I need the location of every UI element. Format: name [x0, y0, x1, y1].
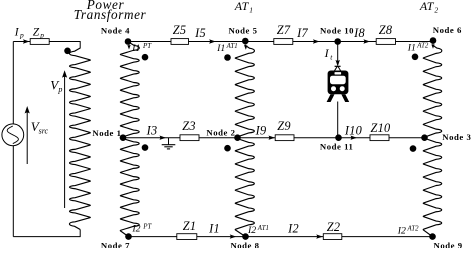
svg-text:I1: I1	[208, 222, 220, 236]
wire bottom bus node7 to node9	[129, 236, 433, 238]
transformer primary winding L1	[69, 48, 90, 230]
resistor Z9	[275, 135, 294, 141]
current arrow I9	[268, 136, 275, 140]
label I2PT	[131, 223, 152, 235]
wire left vertical lower	[12, 146, 14, 237]
resistor Z2	[323, 234, 342, 240]
node 9	[429, 233, 436, 240]
current arrow It	[336, 60, 340, 67]
resistor Zp	[30, 39, 49, 45]
current arrow I2	[316, 234, 323, 238]
svg-text:I9: I9	[255, 124, 267, 138]
svg-text:I1: I1	[131, 43, 140, 54]
current arrow I5	[209, 39, 216, 43]
current arrow I1	[230, 234, 237, 238]
svg-text:AT2: AT2	[416, 43, 429, 50]
svg-text:Node 11: Node 11	[320, 142, 354, 152]
svg-text:Z5: Z5	[173, 23, 187, 37]
svg-text:AT: AT	[234, 0, 250, 13]
polarity dot primary	[64, 48, 71, 55]
label Ip	[14, 27, 24, 40]
svg-text:I3: I3	[146, 124, 158, 138]
svg-text:Transformer: Transformer	[74, 7, 147, 22]
resistor Z8	[376, 39, 395, 45]
svg-text:Z3: Z3	[182, 119, 196, 133]
svg-text:I2: I2	[287, 222, 299, 236]
title AT1	[234, 0, 253, 15]
polarity dot AT2 lower	[410, 145, 417, 152]
wire train feed from node10	[337, 42, 339, 63]
svg-text:I2: I2	[397, 226, 406, 237]
current arrow I8	[363, 39, 370, 43]
voltage source Vsrc	[2, 124, 24, 146]
current arrow I1AT1	[244, 45, 247, 50]
current arrow I3	[159, 136, 166, 140]
svg-text:Node 9: Node 9	[434, 240, 463, 248]
current arrow Ip	[23, 39, 30, 43]
svg-text:Node 6: Node 6	[433, 25, 462, 35]
svg-text:Z2: Z2	[327, 220, 341, 234]
svg-text:1: 1	[249, 6, 253, 15]
node 1	[120, 134, 127, 141]
current arrow I1PT	[127, 44, 130, 50]
resistor Z3	[180, 135, 199, 141]
transformer secondary winding	[120, 43, 139, 237]
label Zp	[33, 27, 45, 40]
polarity dot AT1 lower	[224, 145, 231, 152]
svg-text:I2: I2	[131, 224, 140, 235]
label I2AT2	[397, 226, 419, 237]
resistor Z5	[171, 39, 189, 45]
label Vsrc	[31, 119, 49, 135]
svg-text:AT: AT	[419, 0, 435, 13]
svg-text:Node 3: Node 3	[442, 132, 471, 142]
svg-text:I8: I8	[353, 26, 365, 40]
svg-text:I10: I10	[344, 124, 362, 138]
voltage arrow Vp	[62, 70, 67, 208]
label I1AT1	[216, 43, 238, 54]
current arrow I7	[313, 39, 320, 43]
title AT2	[419, 0, 439, 15]
wire bottom-left to primary	[13, 230, 80, 237]
svg-text:Z8: Z8	[379, 23, 393, 37]
train load	[327, 66, 350, 102]
polarity dot AT1 upper	[224, 54, 231, 61]
wire train to node11	[337, 102, 339, 138]
svg-text:Z10: Z10	[371, 121, 391, 135]
label Vp	[50, 77, 62, 94]
svg-text:Z1: Z1	[183, 219, 197, 233]
svg-text:Node 2: Node 2	[206, 128, 235, 138]
resistor Z7	[274, 39, 293, 45]
wire top-left from source to Zp and primary	[13, 42, 80, 49]
svg-text:AT1: AT1	[226, 43, 238, 50]
svg-text:I7: I7	[296, 26, 308, 40]
polarity dot secondary upper	[142, 54, 149, 61]
label I1PT	[131, 42, 152, 54]
svg-text:PT: PT	[142, 223, 152, 231]
node 11	[335, 134, 342, 141]
label I1AT2	[407, 43, 429, 54]
svg-text:2: 2	[434, 6, 438, 15]
wire middle bus node1 to node3	[123, 137, 425, 139]
node 7	[125, 233, 132, 240]
svg-text:Z7: Z7	[277, 23, 291, 37]
voltage arrow Vsrc	[25, 106, 30, 164]
node 3	[421, 134, 428, 141]
label I2AT1	[247, 225, 269, 236]
current arrow I1AT2	[431, 44, 434, 49]
polarity dot secondary lower	[142, 144, 149, 151]
svg-text:I1: I1	[216, 43, 225, 54]
node 6	[430, 37, 437, 44]
svg-text:p: p	[19, 31, 24, 40]
svg-text:Node 8: Node 8	[230, 240, 259, 248]
svg-text:AT2: AT2	[407, 226, 420, 233]
svg-text:p: p	[39, 31, 44, 40]
node 4	[125, 38, 132, 45]
resistor Z1	[177, 234, 197, 240]
node 10	[334, 38, 341, 45]
svg-text:Z: Z	[33, 27, 40, 39]
svg-text:I1: I1	[407, 43, 416, 54]
svg-text:src: src	[39, 127, 49, 136]
svg-text:AT1: AT1	[257, 225, 269, 232]
svg-text:Node 5: Node 5	[228, 26, 257, 36]
resistor Z10	[370, 135, 389, 141]
wire top bus node4 to node6	[128, 41, 433, 43]
svg-text:Node 1: Node 1	[92, 128, 121, 138]
node 8	[242, 233, 249, 240]
node 2	[234, 134, 241, 141]
current arrow I10	[350, 136, 357, 140]
autotransformer AT1 winding	[235, 45, 254, 237]
ground	[162, 138, 176, 149]
svg-text:Node 4: Node 4	[101, 25, 130, 35]
polarity dot AT2 upper	[412, 54, 419, 61]
wire left vertical upper	[12, 42, 14, 125]
svg-text:Z9: Z9	[277, 119, 291, 133]
svg-text:Node 7: Node 7	[101, 240, 130, 248]
label It	[324, 46, 334, 62]
svg-text:p: p	[57, 85, 62, 94]
svg-text:I2: I2	[247, 225, 256, 236]
node 5	[242, 38, 249, 45]
svg-text:Node 10: Node 10	[320, 25, 354, 35]
autotransformer AT2 winding	[423, 45, 442, 237]
svg-text:I5: I5	[194, 26, 206, 40]
svg-text:PT: PT	[142, 42, 152, 50]
title Power Transformer	[74, 0, 147, 22]
